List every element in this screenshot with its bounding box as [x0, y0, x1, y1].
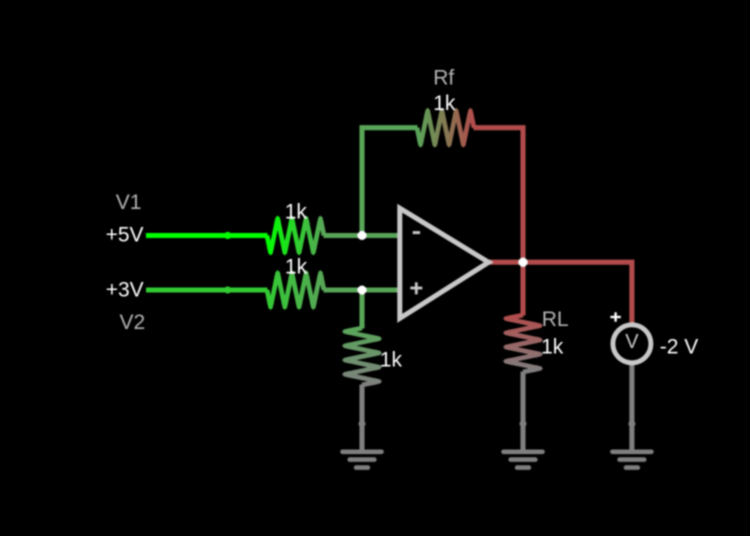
svg-text:+5V: +5V: [106, 224, 144, 247]
svg-text:RL: RL: [542, 308, 569, 331]
svg-text:V1: V1: [116, 191, 142, 214]
svg-text:1k: 1k: [285, 255, 308, 278]
svg-text:1k: 1k: [541, 336, 564, 359]
svg-text:-2 V: -2 V: [660, 336, 699, 359]
svg-text:V2: V2: [119, 311, 145, 334]
svg-text:1k: 1k: [380, 349, 403, 372]
svg-text:+3V: +3V: [106, 278, 144, 301]
svg-text:1k: 1k: [285, 201, 308, 224]
svg-text:Rf: Rf: [433, 66, 454, 89]
svg-text:V: V: [625, 331, 639, 353]
svg-text:1k: 1k: [433, 92, 456, 115]
